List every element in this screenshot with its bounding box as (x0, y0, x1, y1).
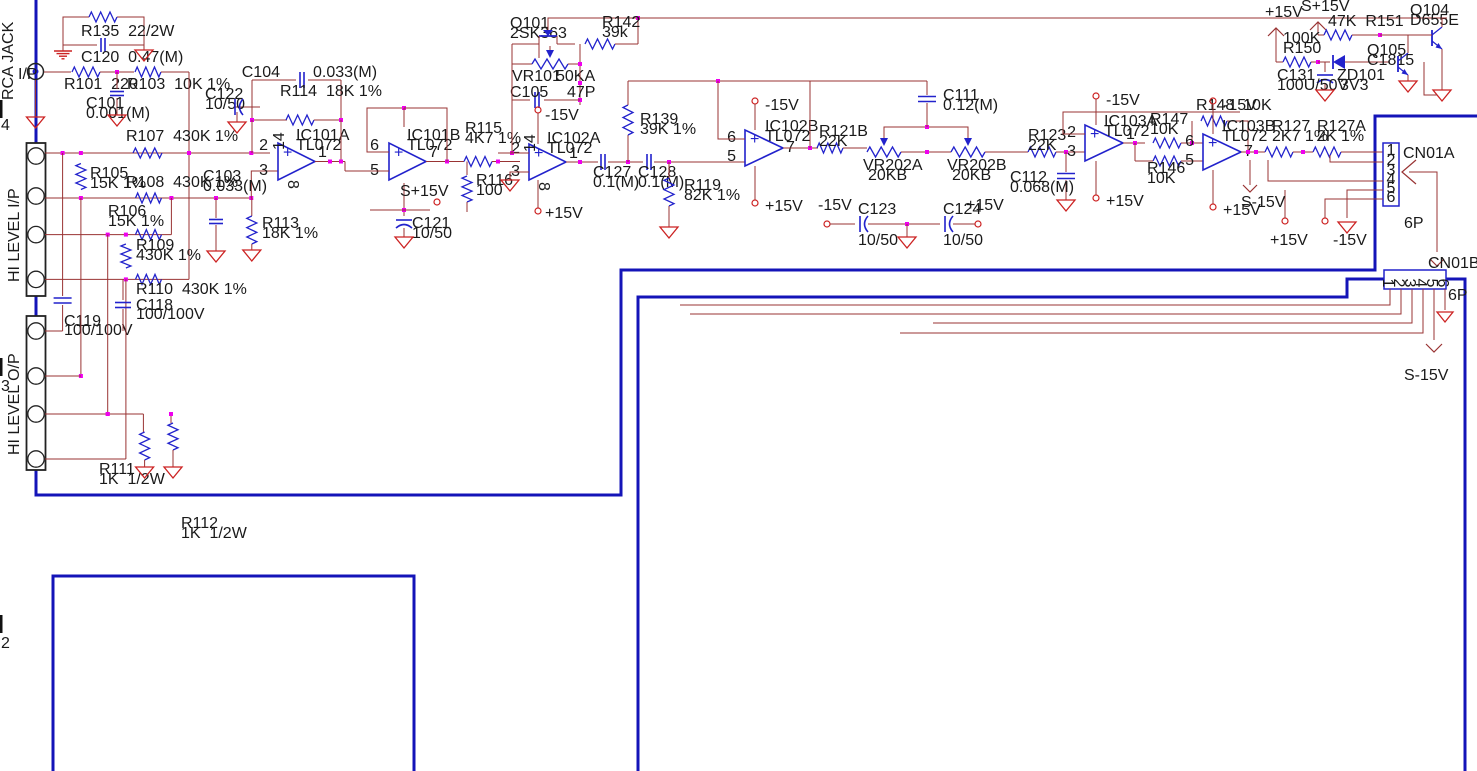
capacitor C101 (116, 72, 118, 89)
wire input row 4 (45, 278, 189, 280)
svg-text:18K 1%: 18K 1% (262, 225, 318, 242)
potentiometer VR202B (951, 147, 985, 157)
svg-text:S-15V: S-15V (1241, 194, 1286, 211)
wire VR101 box (511, 44, 513, 64)
wire R147 to IC103B pin6 (1181, 142, 1203, 144)
svg-text:100/100V: 100/100V (136, 306, 205, 323)
svg-text:+15V: +15V (966, 197, 1004, 214)
svg-text:I/P: I/P (18, 66, 38, 83)
wire feedback IC102B (809, 81, 811, 148)
capacitor C118 (122, 279, 124, 300)
capacitor C111 (926, 103, 928, 127)
svg-text:0.001(M): 0.001(M) (86, 105, 150, 122)
svg-text:-15V: -15V (765, 97, 799, 114)
svg-text:1: 1 (1126, 126, 1135, 143)
wire IC102B pin6 loop (718, 81, 745, 139)
svg-text:R114 18K 1%: R114 18K 1% (280, 83, 382, 100)
svg-text:10/50: 10/50 (943, 232, 983, 249)
svg-text:47P: 47P (567, 84, 595, 101)
resistor R142 (538, 44, 540, 58)
capacitor C103 (215, 198, 217, 218)
op-amp IC103A (1085, 125, 1123, 161)
svg-text:C120 0.47(M): C120 0.47(M) (81, 49, 183, 66)
wire bus x107.7 down (107, 235, 109, 414)
resistor R109 (121, 244, 131, 268)
resistor R103 (135, 67, 161, 77)
svg-text:0.033(M): 0.033(M) (203, 178, 267, 195)
svg-text:+15V: +15V (1106, 193, 1144, 210)
wire IC103A pin2 loop (1063, 112, 1240, 134)
wire R127A to CN01A pin1 (1341, 151, 1383, 153)
capacitor C119 (54, 297, 72, 299)
svg-text:0.12(M): 0.12(M) (943, 97, 998, 114)
svg-text:HI LEVEL O/P: HI LEVEL O/P (6, 353, 23, 455)
svg-text:4: 4 (1, 117, 10, 134)
preamp board border frame (36, 0, 1477, 495)
svg-text:+15V: +15V (1270, 232, 1308, 249)
svg-text:10/50: 10/50 (412, 225, 452, 242)
wire R103 to vertical bus (161, 71, 189, 73)
ground triangle below R113 (243, 250, 261, 261)
wire R127 to R127A (1293, 151, 1313, 153)
potentiometer VR101 (512, 63, 532, 65)
svg-text:47K R151: 47K R151 (1328, 13, 1404, 30)
op-amp IC101B (389, 143, 426, 180)
svg-text:5: 5 (727, 148, 736, 165)
svg-text:R107 430K 1%: R107 430K 1% (126, 128, 238, 145)
resistor R127 (1265, 147, 1293, 157)
wire IC103A out (1123, 142, 1145, 144)
resistor R112 (170, 414, 172, 423)
svg-text:2: 2 (1067, 124, 1076, 141)
svg-text:+15V: +15V (545, 205, 583, 222)
wire IC102B out (783, 147, 818, 149)
ground triangle below C123/C124 (906, 224, 908, 237)
terminal -15V above IC103A (1093, 93, 1099, 99)
svg-text:22K: 22K (819, 133, 848, 150)
terminal -15V above IC102A (535, 107, 541, 113)
arrow S-15V below CN01B (1426, 344, 1442, 352)
wire R123 to IC103A pin3 (1056, 151, 1085, 153)
resistor R121B (817, 143, 843, 153)
ground below Q105 (1407, 75, 1409, 81)
ground triangle IC102A pin3 (501, 180, 519, 191)
wire S+15V tap (403, 183, 405, 210)
capacitor C121 (403, 108, 405, 127)
svg-text:-15V: -15V (1106, 92, 1140, 109)
svg-text:20KB: 20KB (868, 167, 907, 184)
svg-text:+: + (750, 131, 759, 148)
terminal +15V below IC102B (754, 166, 756, 200)
svg-text:0.1(M): 0.1(M) (593, 174, 639, 191)
ground triangle at R135 loop right (143, 45, 145, 50)
svg-text:D655E: D655E (1410, 12, 1459, 29)
wire IC101B pin6 loop (367, 108, 404, 152)
ground triangle below C121 (395, 237, 413, 248)
page fold mark 2 (0, 615, 3, 633)
wire output row 1 (45, 330, 63, 332)
svg-text:1K 1/2W: 1K 1/2W (181, 525, 248, 542)
wire output row 3 (45, 413, 143, 415)
ground triangle below CN01B pin6 (1437, 312, 1453, 322)
wire CN01A pin5 to ground arrow (1347, 190, 1383, 218)
wire R139 top rail (628, 80, 810, 82)
resistor R139 (627, 135, 629, 162)
resistor R105 (76, 164, 86, 190)
svg-text:39k: 39k (602, 24, 629, 41)
svg-text:10/50: 10/50 (858, 232, 898, 249)
svg-text:22K: 22K (1028, 137, 1057, 154)
svg-text:2K 1%: 2K 1% (1317, 128, 1364, 145)
wire IC102A output (566, 161, 598, 163)
wire Q104 collector to rail (1442, 18, 1447, 27)
svg-text:RCA JACK: RCA JACK (0, 21, 17, 100)
terminal -15V above IC103B (1210, 98, 1216, 104)
wire CN01B pin5 to ground (1433, 289, 1435, 340)
capacitor C123 C124 and terminals (824, 221, 830, 227)
resistor R135 (89, 12, 117, 22)
resistor R108 (136, 193, 162, 203)
svg-text:8: 8 (284, 180, 301, 189)
wire output row 4 (45, 458, 126, 460)
svg-text:S-15V: S-15V (1404, 367, 1449, 384)
svg-text:1K 1/2W: 1K 1/2W (99, 471, 166, 488)
wire IC101B out (426, 161, 458, 163)
svg-text:7: 7 (429, 144, 438, 161)
svg-text:6: 6 (1387, 189, 1396, 206)
wire IC103B out (1241, 151, 1265, 153)
op-amp IC101A (278, 143, 315, 180)
capacitor C112 (1065, 152, 1067, 172)
resistor R116 (466, 162, 468, 176)
resistor R113 (251, 198, 253, 216)
svg-text:6: 6 (370, 137, 379, 154)
svg-text:C104: C104 (242, 64, 280, 81)
wire VR202B to R123 (985, 151, 1028, 153)
ground triangle below jack (27, 117, 45, 128)
capacitor C120 (100, 38, 102, 52)
wire CN01B pin6 (1444, 289, 1446, 310)
svg-text:C1815: C1815 (1367, 52, 1414, 69)
svg-text:+: + (1208, 135, 1217, 152)
ground triangle below C112 (1057, 200, 1075, 211)
wire R115 to IC102A pin2 (492, 161, 520, 163)
svg-text:82K 1%: 82K 1% (684, 187, 740, 204)
resistor R110 (136, 274, 162, 284)
svg-text:100U/50V: 100U/50V (1277, 77, 1348, 94)
wire CN01A pin2 (1330, 155, 1383, 162)
wire bus x62.6 down (62, 153, 64, 296)
svg-text:5: 5 (1185, 152, 1194, 169)
resistor R119 (668, 162, 670, 178)
resistor R111 (142, 414, 144, 432)
svg-text:-15V: -15V (545, 107, 579, 124)
wire IC101A output (315, 161, 345, 163)
ground triangle below C131 (1316, 90, 1334, 101)
wire bus x80.9 down (80, 198, 82, 376)
capacitor C104 (251, 80, 253, 120)
arrow into CN01A pin3 (1402, 160, 1416, 184)
terminal +15V below IC103A (1095, 161, 1097, 195)
connector HI LEVEL O/P (27, 316, 46, 470)
resistor R146 (1134, 143, 1136, 161)
wire R106 to R108 link (170, 198, 172, 235)
resistor R115 (458, 161, 464, 163)
connector HI LEVEL I/P (27, 143, 46, 296)
op-amp IC102A (529, 144, 566, 180)
svg-text:R135 22/2W: R135 22/2W (81, 23, 175, 40)
page fold mark 4 (0, 100, 3, 118)
svg-text:3: 3 (1067, 143, 1076, 160)
terminal -15V above IC102B (752, 98, 758, 104)
resistor R148 (1191, 121, 1193, 143)
op-amp IC102B (745, 130, 783, 166)
ground triangle below R111 (136, 467, 154, 478)
svg-text:3: 3 (259, 162, 268, 179)
capacitor C131 (1324, 62, 1326, 72)
svg-text:+: + (1090, 126, 1099, 143)
ground triangle below C122 (236, 112, 238, 122)
wire vertical bus x189 (188, 72, 190, 279)
resistor R106 (136, 230, 162, 240)
ground triangle CN01A pin5 (1338, 222, 1356, 233)
terminal +15V below IC103B (1212, 170, 1214, 204)
svg-text:0.068(M): 0.068(M) (1010, 179, 1074, 196)
wire input row 1 (45, 152, 270, 154)
wire IC102A pin3 ground stub (510, 172, 529, 180)
power supply board border frame (53, 576, 414, 771)
wire pin2 node (510, 151, 514, 155)
wire input row 3 (45, 234, 171, 236)
terminal -15V below CN01A (1322, 218, 1328, 224)
svg-text:C105: C105 (510, 84, 548, 101)
svg-text:+15V: +15V (765, 198, 803, 215)
connector CN01B (1384, 270, 1446, 289)
wire Q104 region vertical (1424, 62, 1437, 95)
svg-text:+: + (394, 145, 403, 162)
resistor R114 (252, 119, 287, 121)
ground triangle below C101 (108, 115, 126, 126)
wire jack to R101 (44, 71, 71, 73)
svg-text:CN01A: CN01A (1403, 145, 1455, 162)
resistor R127A (1313, 147, 1341, 157)
wire C111 top rail to output join (810, 80, 927, 82)
terminal +15V below IC102A (537, 180, 539, 208)
ground triangle below R112 (164, 467, 182, 478)
wire output to R114 right (340, 120, 342, 162)
svg-text:430K 1%: 430K 1% (136, 247, 201, 264)
svg-text:HI LEVEL I/P: HI LEVEL I/P (6, 188, 23, 282)
svg-text:20KB: 20KB (952, 167, 991, 184)
wire Q101 top to long rail (548, 18, 638, 30)
resistor R147 (1153, 138, 1181, 148)
svg-text:39K 1%: 39K 1% (640, 121, 696, 138)
svg-text:0.1(M): 0.1(M) (638, 174, 684, 191)
resistor R101 (72, 67, 100, 77)
svg-text:CN01B: CN01B (1428, 255, 1477, 272)
wire CN01A pin4 (1268, 160, 1383, 181)
resistor R123 (1028, 147, 1056, 157)
svg-text:14: 14 (522, 134, 539, 152)
wire VR202A to VR202B (901, 151, 951, 153)
svg-text:6P: 6P (1448, 287, 1468, 304)
svg-text:R150: R150 (1283, 40, 1321, 57)
RCA jack (28, 64, 44, 80)
ground earth at R135 loop (62, 45, 64, 51)
svg-text:6: 6 (1185, 133, 1194, 150)
wire IC101B pin5 from IC101A out (345, 170, 389, 172)
wire long top rail (638, 17, 1447, 19)
wire feedback to pin2 join (251, 120, 253, 153)
capacitor C105 (511, 64, 513, 100)
wire bus x125.9 down (125, 279, 127, 459)
op-amp IC103B (1203, 134, 1241, 170)
wire pot tap rail (884, 127, 968, 134)
resistor R107 (133, 148, 162, 158)
svg-text:S+15V: S+15V (400, 183, 449, 200)
wire row2 to op-amp pin3 (251, 171, 278, 198)
wire input row 2 (45, 197, 251, 199)
terminal +15V below CN01A (1282, 218, 1288, 224)
svg-text:10K: 10K (1147, 170, 1176, 187)
connector CN01A (1383, 143, 1399, 206)
svg-text:0.033(M): 0.033(M) (313, 64, 377, 81)
svg-text:2: 2 (1, 635, 10, 652)
wire R121B to VR202A (843, 147, 867, 149)
svg-text:1: 1 (569, 145, 578, 162)
wire CN01A pin6 to -15V (1325, 199, 1383, 218)
svg-text:10K: 10K (1150, 121, 1179, 138)
svg-text:14: 14 (271, 132, 288, 150)
zener ZD101 (1318, 61, 1330, 63)
svg-text:-15V: -15V (1223, 97, 1257, 114)
ground below Q104 (1441, 49, 1443, 90)
svg-text:6: 6 (727, 129, 736, 146)
svg-text:-15V: -15V (1333, 232, 1367, 249)
svg-text:2: 2 (259, 137, 268, 154)
ground triangle below C103 (207, 251, 225, 262)
capacitor C128 (646, 154, 648, 170)
svg-text:1: 1 (318, 144, 327, 161)
wire output row 2 (45, 375, 81, 377)
svg-text:C123: C123 (858, 201, 896, 218)
svg-text:100: 100 (476, 182, 503, 199)
arrow S-15V (1249, 160, 1251, 185)
ground triangle below R119 (660, 227, 678, 238)
svg-text:-15V: -15V (818, 197, 852, 214)
svg-text:R110 430K 1%: R110 430K 1% (136, 281, 247, 298)
svg-text:15K 1%: 15K 1% (108, 213, 164, 230)
page fold mark 3 (0, 358, 3, 376)
potentiometer VR202A (867, 147, 901, 157)
svg-text:VR101: VR101 (512, 68, 561, 85)
wire CN01A pin3 to CN01B (1409, 172, 1437, 252)
wire feedback IC101B (404, 108, 447, 162)
svg-text:+15V: +15V (1265, 4, 1303, 21)
svg-text:6P: 6P (1404, 215, 1424, 232)
capacitor C122 (234, 106, 260, 108)
wire R135 loop (63, 17, 89, 45)
wire jack to ground (35, 80, 37, 117)
wire node R101-R103 (100, 71, 134, 73)
svg-text:50KA: 50KA (556, 68, 595, 85)
wires CN01B pins down fanning left (680, 289, 1390, 305)
capacitor C127 (600, 154, 602, 170)
power amp board border frame (638, 279, 1465, 771)
